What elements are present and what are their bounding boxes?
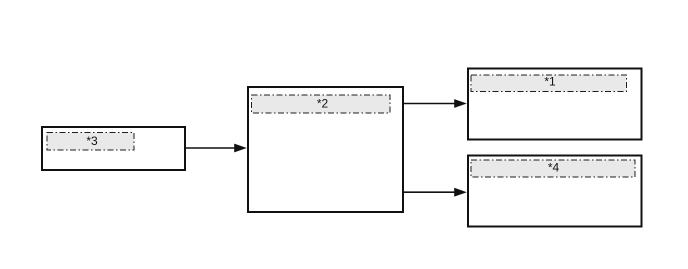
wire *3 to *2 [185, 147, 236, 149]
wire *2 to *1 [403, 103, 456, 105]
label bar *4 [471, 160, 635, 177]
label bar *1 [471, 75, 627, 92]
label bar *3 [47, 133, 134, 151]
arrowhead into *1 [454, 99, 467, 108]
svg-text:*2: *2 [317, 97, 329, 111]
wire *2 to *4 [403, 191, 456, 193]
svg-text:*4: *4 [548, 161, 560, 175]
block *4 outer box [468, 156, 642, 227]
arrowhead into *2 [234, 144, 247, 153]
block *2 outer box [248, 87, 403, 212]
block *3 outer box [42, 127, 185, 170]
label bar *2 [252, 95, 391, 113]
arrowhead into *4 [454, 188, 467, 197]
block *1 outer box [468, 69, 642, 140]
svg-text:*3: *3 [86, 134, 98, 148]
svg-text:*1: *1 [544, 75, 556, 89]
